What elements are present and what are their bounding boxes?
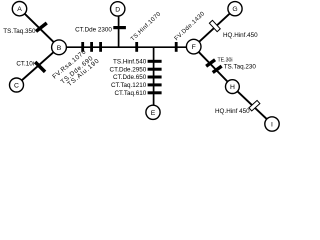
open tick HQ.Hinf.450 on F-G xyxy=(209,20,220,31)
svg-text:TE.30i: TE.30i xyxy=(218,57,233,63)
tick CT.Taq.1210 on E branch xyxy=(148,83,162,86)
tick FV.Rsa.1070 on main line xyxy=(81,42,84,52)
tick TS.Taq.230 on F-H xyxy=(212,65,223,74)
node G xyxy=(228,2,242,16)
tick TE.30i on F-H xyxy=(205,58,216,67)
svg-text:F: F xyxy=(192,44,196,51)
svg-text:CT.Dde 2300: CT.Dde 2300 xyxy=(75,26,112,33)
svg-text:CT.Taq.610: CT.Taq.610 xyxy=(114,90,146,97)
tick TS.Alu.190 on main line xyxy=(99,42,102,52)
wire A-B xyxy=(20,9,60,48)
svg-text:G: G xyxy=(232,6,237,13)
svg-text:HQ.Hinf 450: HQ.Hinf 450 xyxy=(215,108,250,115)
tick TS.Hinf.1070 on main line xyxy=(135,42,138,52)
tick TS.Taq.350 on A-B xyxy=(35,22,48,33)
node B xyxy=(52,40,67,55)
svg-text:CT.Dde.650: CT.Dde.650 xyxy=(113,74,147,81)
node D xyxy=(111,2,125,16)
wire F-H xyxy=(194,47,233,87)
svg-text:CT.10i: CT.10i xyxy=(16,60,34,67)
wire F-G xyxy=(194,9,235,47)
tick TS.Dde.690 on main line xyxy=(90,42,93,52)
tick TS.Hinf.540 on E branch xyxy=(148,60,162,63)
svg-text:A: A xyxy=(17,6,22,13)
svg-text:H: H xyxy=(230,84,235,91)
tick FV.Dde.1430 on main line xyxy=(175,42,178,52)
svg-text:C: C xyxy=(14,83,19,90)
open tick HQ.Hinf.450 on H-I xyxy=(249,100,260,110)
svg-text:TS.Taq.350: TS.Taq.350 xyxy=(3,28,36,35)
tick CT.10i on C-B xyxy=(34,61,46,73)
svg-text:CT.Taq.1210: CT.Taq.1210 xyxy=(111,82,147,89)
node F xyxy=(186,39,201,54)
svg-text:HQ.Hinf.450: HQ.Hinf.450 xyxy=(223,32,258,39)
tick CT.Dde.2300 on D branch xyxy=(113,26,126,29)
node C xyxy=(10,78,24,92)
tick CT.Taq.610 on E branch xyxy=(148,91,162,94)
node A xyxy=(12,2,26,16)
svg-text:FV.Dde.1430: FV.Dde.1430 xyxy=(174,11,207,43)
node E xyxy=(146,105,160,119)
wire H-I xyxy=(232,87,272,124)
svg-text:D: D xyxy=(115,6,120,13)
wire D branch xyxy=(118,9,120,47)
wire B-F main line xyxy=(59,46,194,48)
wire C-B xyxy=(17,47,60,85)
wire E branch xyxy=(153,47,155,112)
svg-text:I: I xyxy=(271,122,273,129)
svg-text:E: E xyxy=(151,110,156,117)
svg-text:CT.Dde.2950: CT.Dde.2950 xyxy=(110,66,147,73)
svg-text:TS.Hinf.540: TS.Hinf.540 xyxy=(113,59,147,66)
tick CT.Dde.650 on E branch xyxy=(148,76,162,79)
svg-text:TS.Taq.230: TS.Taq.230 xyxy=(224,64,257,71)
svg-text:B: B xyxy=(57,45,62,52)
node I xyxy=(265,117,279,131)
tick CT.Dde.2950 on E branch xyxy=(148,68,162,71)
node H xyxy=(226,80,240,94)
svg-text:TS.Hinf.1070: TS.Hinf.1070 xyxy=(130,11,163,43)
